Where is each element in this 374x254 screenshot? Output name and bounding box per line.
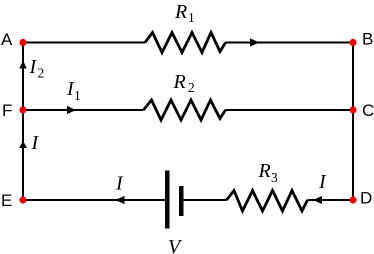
battery V short plate — [179, 186, 184, 216]
resistor R3 — [227, 191, 308, 212]
svg-text:I: I — [318, 171, 327, 193]
wire middle F-C — [23, 109, 353, 111]
arrow right on top wire — [250, 38, 260, 46]
svg-text:I: I — [29, 56, 38, 78]
node B — [349, 39, 356, 46]
resistor R1 — [145, 33, 226, 53]
node D — [349, 196, 356, 203]
arrow left I on bottom wire left — [116, 196, 125, 204]
node A — [19, 39, 26, 46]
arrow right I1 on middle wire — [67, 106, 76, 114]
svg-text:R: R — [174, 1, 187, 23]
svg-text:C: C — [362, 101, 374, 120]
svg-text:R: R — [173, 71, 186, 93]
wire bottom E-D — [23, 199, 353, 201]
svg-text:D: D — [360, 189, 372, 208]
svg-text:1: 1 — [74, 88, 81, 103]
node F — [19, 106, 26, 113]
wire left A-F-E — [22, 43, 24, 201]
battery V long plate — [165, 171, 170, 229]
svg-text:R: R — [258, 160, 271, 182]
arrow left I on bottom wire right — [313, 196, 322, 204]
svg-text:2: 2 — [188, 80, 195, 95]
svg-text:3: 3 — [271, 170, 278, 185]
svg-text:I: I — [115, 173, 124, 195]
wire top A-B — [23, 42, 353, 44]
svg-text:A: A — [1, 30, 13, 49]
arrow up I on left wire — [19, 141, 27, 149]
node E — [19, 196, 26, 203]
svg-text:I: I — [31, 132, 40, 154]
svg-text:F: F — [2, 101, 12, 120]
svg-text:B: B — [362, 30, 373, 49]
svg-text:2: 2 — [38, 66, 45, 81]
wire right B-C-D — [352, 43, 354, 201]
svg-text:1: 1 — [188, 10, 195, 25]
resistor R2 — [144, 100, 226, 120]
node C — [349, 106, 356, 113]
svg-text:E: E — [1, 191, 12, 210]
arrow up I2 on left wire — [19, 61, 27, 69]
